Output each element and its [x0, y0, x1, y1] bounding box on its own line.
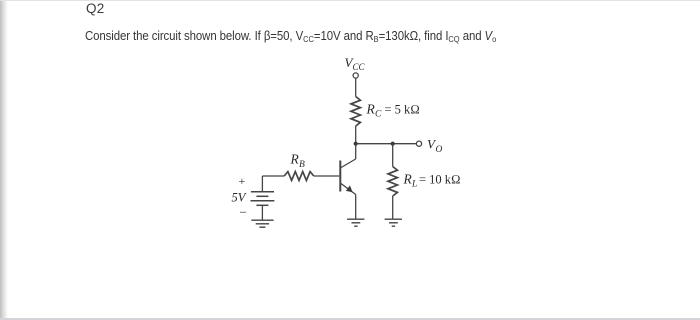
- svg-text:R: R: [403, 172, 413, 187]
- svg-text:= 10 kΩ: = 10 kΩ: [419, 173, 461, 187]
- svg-text:5V: 5V: [232, 191, 247, 205]
- svg-text:+: +: [239, 174, 246, 188]
- svg-text:R: R: [366, 102, 376, 117]
- svg-text:O: O: [436, 145, 443, 155]
- svg-text:L: L: [411, 180, 417, 190]
- svg-text:−: −: [240, 205, 247, 220]
- svg-text:= 5 kΩ: = 5 kΩ: [385, 103, 420, 117]
- svg-text:CC: CC: [353, 62, 366, 72]
- svg-text:B: B: [299, 160, 305, 170]
- svg-text:R: R: [290, 152, 300, 167]
- svg-text:C: C: [375, 110, 382, 120]
